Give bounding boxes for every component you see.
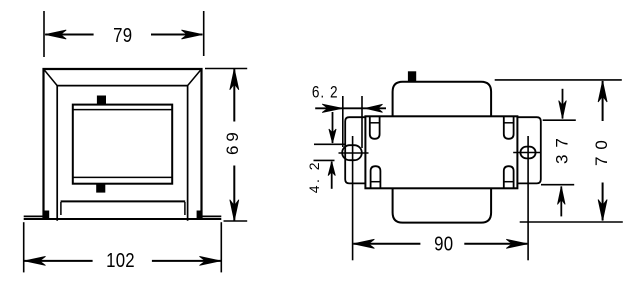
dim 79 right extension line (203, 11, 205, 56)
dim 6.2 left extension line (342, 96, 344, 147)
dim 70 label (592, 133, 611, 166)
svg-text:79: 79 (113, 24, 132, 47)
dim 102 right arrow (152, 256, 221, 265)
coil top bulge (393, 82, 492, 117)
base plate bottom line (24, 218, 222, 220)
dim 4.2 upper tick (314, 143, 345, 145)
lamination stack rect (365, 116, 517, 188)
bobbin outline (73, 105, 172, 184)
top stud (97, 96, 106, 105)
dim 4.2 lower arrow (328, 162, 335, 189)
dim 70 lower arrow (598, 183, 607, 221)
bobbin flange line bottom (73, 176, 172, 178)
dim 37 lower tick (541, 184, 574, 186)
svg-text:4. 2: 4. 2 (306, 160, 322, 193)
dim 90 left arrow (353, 239, 420, 248)
slot top-right (504, 116, 514, 139)
dim 37 label (553, 131, 572, 164)
slot bottom-right (504, 166, 514, 188)
dim 6.2 left arrow (315, 104, 342, 112)
left mounting bracket (345, 117, 365, 183)
right slot hole (520, 147, 535, 159)
coil bottom bulge (393, 188, 492, 222)
clamp right stub (184, 202, 186, 215)
left slot hole (342, 145, 362, 160)
dim 4.2 lower tick (314, 159, 335, 161)
svg-text:90: 90 (434, 232, 453, 255)
left clamp tab (44, 211, 49, 219)
right clamp tab (197, 211, 202, 219)
left hole horizontal centerline (339, 152, 369, 154)
right mounting bracket (517, 117, 540, 183)
dim 70 bottom extension line (520, 221, 623, 223)
dim 37 lower arrow (558, 186, 566, 216)
dim 69 lower arrow (230, 166, 239, 221)
dim 70 top extension line (495, 79, 622, 81)
bottom stud (96, 184, 105, 193)
dim 6.2 connecting line (342, 107, 365, 109)
dim 69 bottom extension line (224, 220, 248, 222)
svg-text:69: 69 (223, 128, 242, 155)
clamp shelf line (61, 200, 186, 202)
dim 102 label (106, 248, 135, 271)
frame miter top-right (188, 69, 202, 86)
dim 69 upper arrow (230, 69, 239, 122)
right hole horizontal centerline (513, 152, 541, 154)
clamp left stub (60, 202, 62, 215)
dim 70 upper arrow (598, 81, 607, 121)
core outer frame (44, 69, 202, 219)
dim 102 right extension line (220, 222, 222, 272)
right flange top line (202, 215, 222, 217)
dim 6.2 right arrow (366, 104, 387, 112)
dim 102 left extension line (23, 222, 25, 272)
dim 90 label (434, 232, 453, 255)
dim 79 label (113, 24, 132, 47)
dim 102 left arrow (25, 256, 93, 265)
dim 6.2 right extension line (361, 96, 363, 148)
dim 90 left extension line (352, 136, 354, 260)
dim 37 upper arrow (559, 89, 567, 119)
svg-text:70: 70 (592, 133, 611, 166)
dim 6.2 label (312, 83, 339, 101)
dim 79 right arrow (151, 30, 203, 39)
core inner frame (57, 86, 187, 221)
slot top-left (370, 116, 380, 139)
svg-text:6. 2: 6. 2 (312, 83, 339, 101)
dim 90 right arrow (464, 239, 527, 248)
dim 79 left extension line (43, 11, 45, 57)
bobbin flange line top (73, 109, 172, 111)
slot bottom-left (371, 166, 381, 188)
frame miter top-left (44, 69, 58, 86)
dim 37 upper tick (543, 119, 576, 121)
dim 4.2 label (306, 160, 322, 193)
svg-text:37: 37 (553, 131, 572, 164)
dim 79 left arrow (45, 30, 93, 39)
dim 90 right extension line (527, 136, 529, 260)
top stud side view (408, 71, 416, 81)
left flange top line (24, 215, 44, 217)
dim 69 label (223, 128, 242, 155)
dim 69 top extension line (205, 68, 247, 70)
dim 4.2 upper arrow (329, 112, 336, 143)
svg-text:102: 102 (106, 248, 135, 271)
